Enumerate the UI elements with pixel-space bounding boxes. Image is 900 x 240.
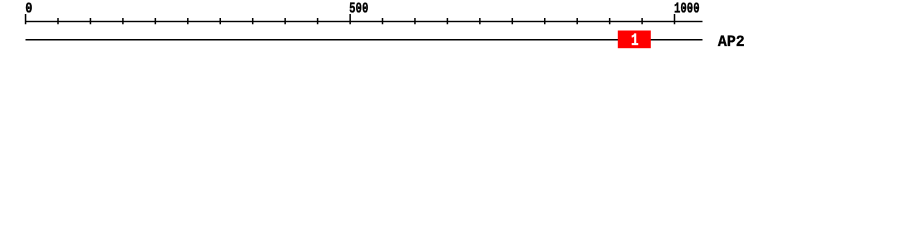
- svg-text:500: 500: [349, 1, 368, 18]
- dotted-zero dot of "0": [28, 7, 30, 9]
- dotted-zero dots of "1000": [683, 7, 685, 9]
- feature track line: [26, 39, 703, 41]
- svg-text:0: 0: [25, 1, 32, 18]
- minor ticks: [57, 18, 643, 24]
- major tick 1000: [674, 14, 676, 24]
- svg-text:1: 1: [631, 31, 639, 51]
- svg-text:AP2: AP2: [718, 33, 745, 51]
- feature box 1 (red): [618, 31, 651, 49]
- major tick 0: [25, 14, 27, 24]
- ruler scale line: [26, 21, 703, 22]
- major tick 500: [349, 14, 351, 24]
- svg-text:1000: 1000: [674, 1, 700, 18]
- dotted-zero dots of "500": [358, 7, 360, 9]
